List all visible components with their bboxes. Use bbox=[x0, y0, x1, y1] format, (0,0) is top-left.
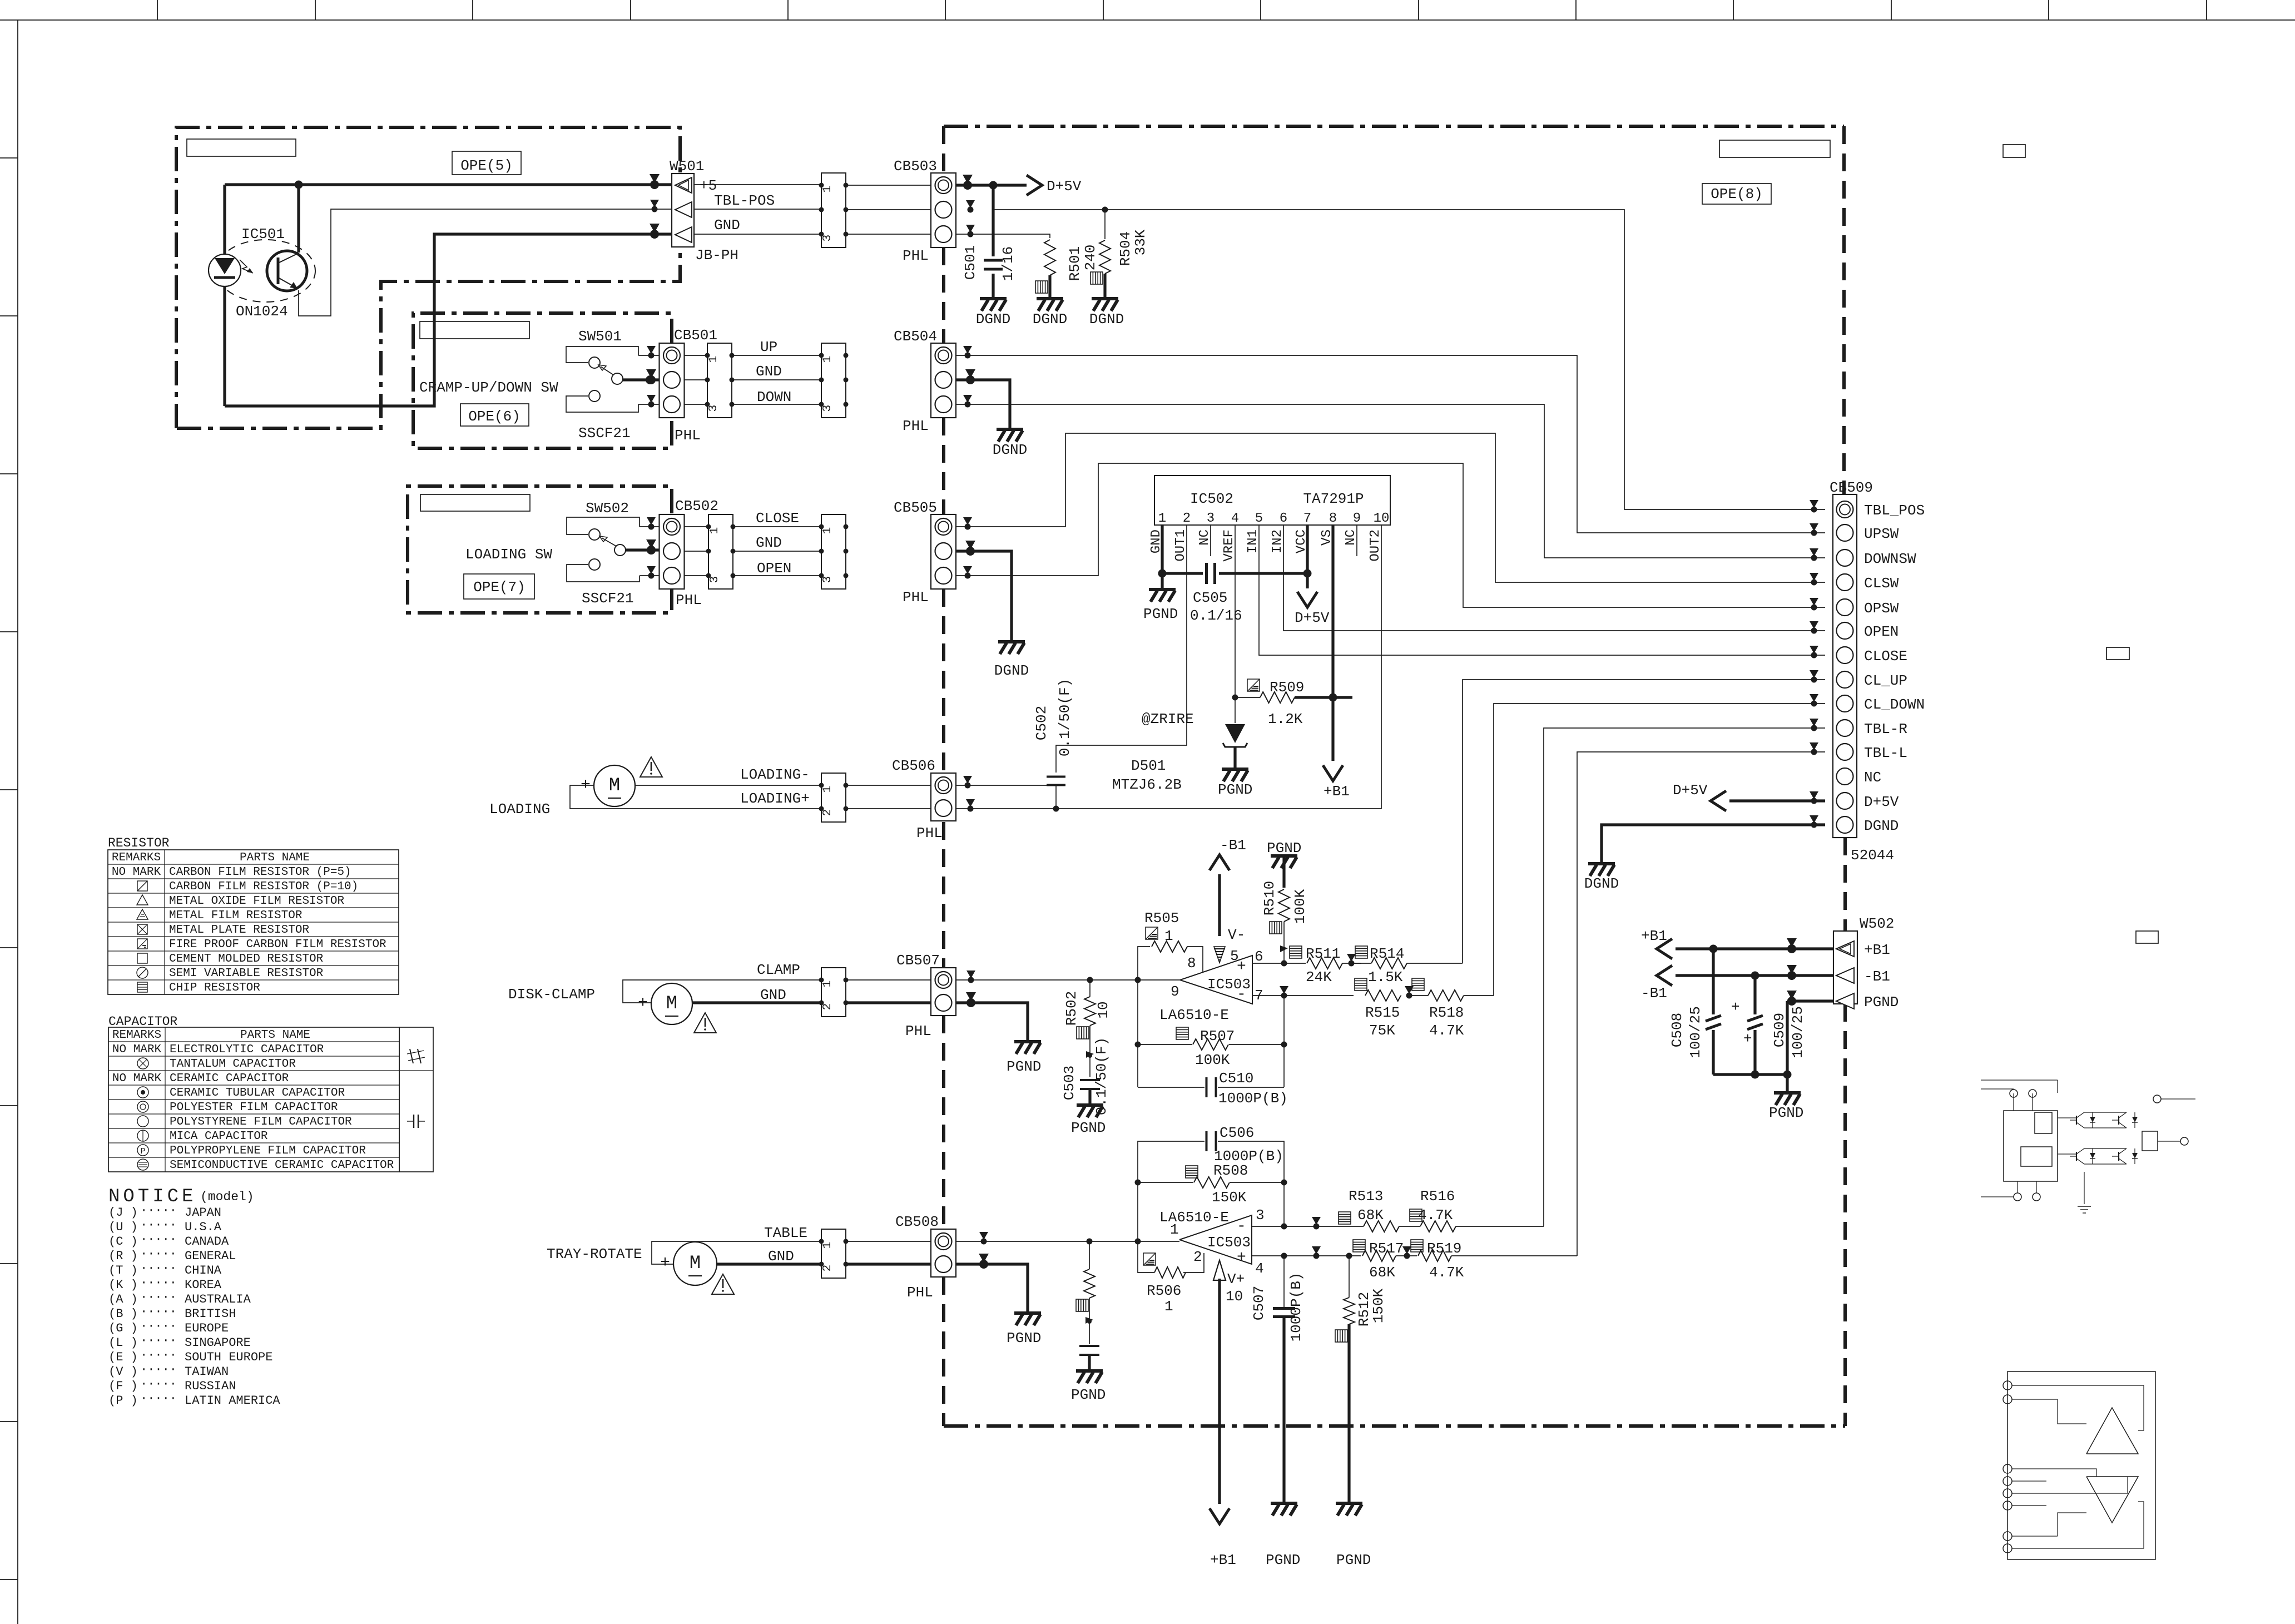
IC501 phototransistor Q bbox=[267, 251, 307, 291]
empty title box OPE(5) bbox=[187, 139, 296, 156]
svg-text:-B1: -B1 bbox=[1864, 968, 1890, 985]
svg-text:+: + bbox=[1743, 1031, 1752, 1047]
svg-text:C501: C501 bbox=[962, 245, 979, 280]
svg-text:3: 3 bbox=[1207, 511, 1215, 526]
svg-text:10: 10 bbox=[1374, 511, 1390, 526]
svg-text:TBL-POS: TBL-POS bbox=[714, 192, 775, 209]
IC502 package box bbox=[1154, 476, 1390, 525]
node D+5V branch bbox=[989, 181, 998, 190]
svg-text:SEMICONDUCTIVE CERAMIC CAPACIT: SEMICONDUCTIVE CERAMIC CAPACITOR bbox=[170, 1159, 394, 1172]
svg-text:R519: R519 bbox=[1427, 1240, 1461, 1257]
svg-text:POLYPROPYLENE FILM CAPACITOR: POLYPROPYLENE FILM CAPACITOR bbox=[170, 1145, 366, 1157]
svg-text:1: 1 bbox=[821, 1242, 834, 1249]
svg-text:NC: NC bbox=[1864, 769, 1881, 786]
node SW502 pole junction bbox=[647, 546, 656, 554]
switch SW501 upper contact bbox=[566, 346, 638, 363]
svg-text:UPSW: UPSW bbox=[1864, 526, 1899, 542]
svg-text:1: 1 bbox=[821, 786, 834, 793]
svg-text:+5: +5 bbox=[700, 177, 717, 194]
svg-text:3: 3 bbox=[821, 235, 834, 242]
warning mark loading motor bbox=[640, 757, 662, 777]
svg-text:R507: R507 bbox=[1200, 1028, 1235, 1044]
svg-text:3: 3 bbox=[708, 576, 721, 583]
svg-text:8: 8 bbox=[1329, 511, 1337, 526]
connector separation markers at CB507 bbox=[966, 971, 975, 978]
svg-text:2: 2 bbox=[1193, 1249, 1202, 1265]
connector separation marker R517-R519 bbox=[1402, 1246, 1411, 1254]
node feedback tap lower bbox=[1135, 1239, 1141, 1245]
switch SW502 lower contact bbox=[567, 565, 640, 582]
svg-text:C503: C503 bbox=[1061, 1066, 1078, 1100]
svg-text:UP: UP bbox=[760, 339, 777, 355]
svg-text:PGND: PGND bbox=[1266, 1552, 1300, 1568]
svg-text:CL_UP: CL_UP bbox=[1864, 672, 1907, 689]
svg-text:·····: ····· bbox=[140, 1247, 177, 1261]
svg-text:PGND: PGND bbox=[1143, 606, 1178, 622]
connector CB505 bbox=[931, 514, 956, 589]
svg-text:100K: 100K bbox=[1195, 1052, 1230, 1068]
OPE(6) cramp-up/down switch boundary (dash-dot) bbox=[413, 313, 672, 448]
capacitor C502 bbox=[1047, 776, 1065, 778]
svg-text:D+5V: D+5V bbox=[1864, 794, 1899, 810]
svg-text:·····: ····· bbox=[140, 1334, 177, 1348]
svg-text:JAPAN: JAPAN bbox=[185, 1206, 221, 1220]
wire SW501 upper contact to CB501 pin1 bbox=[638, 355, 660, 356]
capacitor C503 bbox=[1080, 1079, 1100, 1081]
warning mark disk-clamp motor bbox=[694, 1013, 716, 1033]
resistor R511 bbox=[1307, 958, 1342, 969]
svg-text:PHL: PHL bbox=[903, 589, 929, 606]
resistor R508 feedback bbox=[1135, 1180, 1141, 1186]
harness junction box CB507 bbox=[821, 968, 846, 1017]
svg-text:OPE(6): OPE(6) bbox=[468, 408, 521, 425]
wire DGND out of CB509 bbox=[1602, 825, 1825, 862]
svg-text:LOADING-: LOADING- bbox=[740, 766, 810, 783]
wire LOADING- from CB506 pin1 bbox=[956, 785, 1056, 786]
svg-text:9: 9 bbox=[1353, 511, 1361, 526]
svg-text:PHL: PHL bbox=[907, 1284, 933, 1301]
svg-text:CARBON FILM RESISTOR (P=5): CARBON FILM RESISTOR (P=5) bbox=[169, 866, 351, 879]
svg-text:D501: D501 bbox=[1131, 757, 1166, 774]
svg-text:+B1: +B1 bbox=[1864, 942, 1890, 958]
resistor R514 bbox=[1351, 963, 1371, 964]
svg-text:C509: C509 bbox=[1771, 1013, 1788, 1047]
resistor R501 bbox=[1044, 240, 1055, 275]
switch SW501 lower contact bbox=[566, 396, 638, 412]
svg-text:IN1: IN1 bbox=[1246, 529, 1261, 553]
svg-text:PHL: PHL bbox=[916, 825, 943, 841]
svg-text:6: 6 bbox=[1255, 948, 1263, 965]
svg-text:100/25: 100/25 bbox=[1790, 1006, 1806, 1058]
svg-text:PGND: PGND bbox=[1071, 1387, 1106, 1403]
svg-text:1: 1 bbox=[821, 186, 834, 193]
svg-text:(J ): (J ) bbox=[108, 1206, 138, 1220]
svg-text:PGND: PGND bbox=[1336, 1552, 1371, 1568]
resistor R510 chain from PGND bbox=[1271, 856, 1297, 868]
svg-text:VREF: VREF bbox=[1222, 529, 1237, 562]
svg-text:V+: V+ bbox=[1227, 1271, 1245, 1288]
svg-text:CEMENT MOLDED RESISTOR: CEMENT MOLDED RESISTOR bbox=[169, 953, 324, 966]
zener diode D501 MTZJ6.2B bbox=[1235, 697, 1236, 723]
svg-text:4.7K: 4.7K bbox=[1429, 1022, 1464, 1039]
connector CB506 bbox=[931, 773, 956, 821]
svg-text:R504: R504 bbox=[1117, 231, 1134, 266]
svg-text:PGND: PGND bbox=[1007, 1330, 1041, 1346]
svg-text:CHINA: CHINA bbox=[185, 1264, 222, 1278]
thumbnail driver IC block diagram bbox=[2007, 1372, 2155, 1559]
wire CB504 GND to DGND bbox=[956, 380, 1010, 428]
wire SW502 lower contact to CB502 pin3 bbox=[640, 575, 660, 576]
wire TBL-POS long run to CB509 bbox=[994, 210, 1825, 509]
svg-text:TBL-L: TBL-L bbox=[1864, 745, 1907, 761]
svg-text:1.2K: 1.2K bbox=[1268, 711, 1303, 727]
svg-text:·····: ····· bbox=[140, 1363, 177, 1377]
wire C501 vertical drop bbox=[992, 185, 994, 256]
harness junction box B CB501-CB504 bbox=[821, 343, 846, 418]
svg-text:8: 8 bbox=[1187, 955, 1196, 972]
svg-text:1: 1 bbox=[1170, 1221, 1179, 1238]
svg-text:METAL PLATE RESISTOR: METAL PLATE RESISTOR bbox=[169, 924, 309, 937]
svg-text:CERAMIC CAPACITOR: CERAMIC CAPACITOR bbox=[170, 1072, 289, 1085]
capacitor C508 electrolytic bbox=[1712, 949, 1714, 1014]
ground PGND under CB507 bbox=[1014, 1042, 1041, 1054]
svg-text:REMARKS: REMARKS bbox=[112, 1029, 161, 1042]
svg-text:PARTS NAME: PARTS NAME bbox=[240, 851, 310, 864]
svg-text:TRAY-ROTATE: TRAY-ROTATE bbox=[547, 1246, 642, 1262]
svg-text:M: M bbox=[666, 993, 677, 1014]
svg-text:C505: C505 bbox=[1193, 590, 1227, 606]
wire DOWN from CB504 to CB509 DOWNSW bbox=[956, 404, 1825, 558]
motor TRAY-ROTATE bracket wires bbox=[652, 1241, 821, 1264]
svg-text:NO MARK: NO MARK bbox=[112, 866, 161, 879]
svg-text:·····: ····· bbox=[140, 1392, 177, 1405]
ground DGND under CB504 bbox=[997, 429, 1023, 442]
connector separation marker R515-R518 bbox=[1405, 986, 1414, 994]
IC502 pin9 NC stub bbox=[1356, 525, 1357, 556]
capacitor C510 bbox=[1138, 1087, 1204, 1088]
wire CB505 GND to DGND bbox=[956, 551, 1012, 641]
svg-text:PGND: PGND bbox=[1864, 994, 1899, 1011]
V+ supply arrow into pin10 bbox=[1213, 1260, 1226, 1280]
wire GND to C505 bbox=[1162, 572, 1203, 575]
svg-text:4: 4 bbox=[1255, 1260, 1264, 1277]
svg-text:CB502: CB502 bbox=[675, 498, 718, 514]
svg-text:·····: ····· bbox=[140, 1232, 177, 1246]
wire W501 to junction box row TBL-POS bbox=[694, 209, 821, 210]
connector CB508 bbox=[931, 1229, 956, 1277]
svg-text:3: 3 bbox=[821, 405, 834, 412]
svg-text:4: 4 bbox=[1231, 511, 1239, 526]
wire IC501 collector to +5 bbox=[297, 185, 300, 252]
node R504 tap on TBL-POS wire bbox=[1102, 207, 1108, 213]
wire -B1 into W502 bbox=[1676, 974, 1833, 977]
svg-text:2: 2 bbox=[821, 1003, 834, 1011]
svg-text:SW501: SW501 bbox=[578, 328, 622, 345]
wire C505 to VCC pin7 bbox=[1219, 572, 1307, 575]
svg-text:0.1/16: 0.1/16 bbox=[1190, 607, 1242, 624]
svg-text:C508: C508 bbox=[1669, 1013, 1686, 1047]
connector separation markers at W502 bbox=[1787, 938, 1797, 947]
svg-text:CARBON FILM RESISTOR (P=10): CARBON FILM RESISTOR (P=10) bbox=[169, 880, 358, 893]
svg-text:PHL: PHL bbox=[903, 247, 929, 264]
wires junction box to CB507 bbox=[846, 979, 931, 981]
OPE(8) boundary bottom edge bbox=[944, 1424, 1845, 1428]
svg-text:1: 1 bbox=[708, 527, 721, 534]
capacitor C506 feedback bbox=[1138, 1141, 1204, 1182]
svg-text:·····: ····· bbox=[140, 1261, 177, 1275]
connector W502 bbox=[1833, 931, 1857, 1004]
svg-text:DOWNSW: DOWNSW bbox=[1864, 551, 1916, 567]
ground PGND under C504 bbox=[1076, 1371, 1103, 1383]
svg-text:DGND: DGND bbox=[994, 662, 1029, 679]
svg-text:CAPACITOR: CAPACITOR bbox=[108, 1014, 177, 1029]
svg-text:6: 6 bbox=[1280, 511, 1287, 526]
svg-text:LATIN AMERICA: LATIN AMERICA bbox=[185, 1394, 280, 1408]
IC502 pin4 VREF lead bbox=[1235, 525, 1236, 697]
connector separation markers at CB504 bbox=[963, 346, 972, 354]
connector separation markers at CB506 bbox=[963, 776, 972, 784]
small reference box right edge lower bbox=[2136, 931, 2158, 943]
svg-text:CB503: CB503 bbox=[894, 158, 937, 175]
motor LOADING bracket wires bbox=[570, 785, 821, 809]
svg-text:R515: R515 bbox=[1365, 1004, 1400, 1021]
svg-text:7: 7 bbox=[1255, 987, 1263, 1004]
svg-text:3: 3 bbox=[1256, 1207, 1265, 1224]
svg-text:TANTALUM CAPACITOR: TANTALUM CAPACITOR bbox=[170, 1058, 296, 1071]
op-amp IC503 upper half bbox=[1180, 955, 1252, 1004]
connector CB507 bbox=[931, 968, 956, 1016]
svg-text:SINGAPORE: SINGAPORE bbox=[185, 1336, 251, 1350]
wire pin4 + input bbox=[1252, 1255, 1284, 1256]
small reference box right edge top bbox=[2003, 145, 2025, 157]
svg-text:TAIWAN: TAIWAN bbox=[185, 1365, 229, 1379]
wire CB507 GND to PGND bbox=[956, 1003, 1028, 1040]
capacitor C509 electrolytic bbox=[1753, 976, 1756, 1014]
connector CB504 bbox=[931, 343, 956, 418]
label box OPE(7) bbox=[464, 574, 534, 599]
svg-text:DGND: DGND bbox=[993, 442, 1027, 458]
svg-text:68K: 68K bbox=[1369, 1264, 1395, 1281]
svg-text:TBL_POS: TBL_POS bbox=[1864, 502, 1925, 519]
svg-text:OPE(7): OPE(7) bbox=[473, 579, 526, 596]
wire CL_UP to CB509 bbox=[1463, 680, 1825, 963]
node C502 to LOADING+ bbox=[1053, 806, 1059, 812]
connector W501 JB-PH bbox=[672, 174, 694, 247]
ground PGND under C507 bbox=[1271, 1503, 1297, 1516]
resistor R518 bbox=[1409, 995, 1428, 996]
svg-text:IC501: IC501 bbox=[241, 226, 285, 242]
svg-text:LOADING: LOADING bbox=[489, 801, 550, 818]
OPE(7) loading switch boundary (dash-dot) bbox=[408, 486, 672, 613]
OPE(8) boundary right edge below W502 bbox=[1843, 1004, 1847, 1426]
IC501 LED bbox=[209, 254, 241, 286]
svg-text:CHIP RESISTOR: CHIP RESISTOR bbox=[169, 982, 260, 994]
empty title box OPE(6) bbox=[420, 321, 529, 339]
svg-text:-B1: -B1 bbox=[1641, 985, 1667, 1002]
wire pin7 - output bbox=[1252, 995, 1284, 996]
svg-text:R509: R509 bbox=[1270, 679, 1304, 696]
wire SW502 upper contact to CB502 pin1 bbox=[640, 526, 660, 527]
svg-text:V-: V- bbox=[1228, 927, 1245, 943]
svg-text:GENERAL: GENERAL bbox=[185, 1249, 236, 1263]
svg-text:GND: GND bbox=[714, 217, 740, 234]
node IC502 GND junction bbox=[1158, 570, 1167, 578]
wire +B1 into W502 bbox=[1676, 947, 1833, 950]
ground DGND under CB505 bbox=[998, 642, 1025, 654]
resistor R504 bbox=[1099, 240, 1111, 274]
ground DGND under R501 bbox=[1037, 299, 1063, 311]
connector CB509 bbox=[1833, 494, 1857, 838]
wires junction box to CB506 bbox=[846, 785, 931, 786]
svg-text:D+5V: D+5V bbox=[1047, 178, 1082, 195]
ground DGND from CB509 bbox=[1588, 864, 1615, 876]
svg-text:10: 10 bbox=[1226, 1288, 1243, 1305]
capacitor C501 bbox=[984, 259, 1003, 262]
svg-text:C506: C506 bbox=[1220, 1125, 1254, 1141]
svg-text:68K: 68K bbox=[1357, 1207, 1384, 1224]
motor DISK-CLAMP bracket wires bbox=[623, 980, 821, 1003]
svg-text:(U ): (U ) bbox=[108, 1220, 138, 1234]
wire +5 supply inside OPE(5) bbox=[225, 183, 672, 186]
ground PGND under R512 bbox=[1336, 1503, 1362, 1516]
fire-proof mark R509 bbox=[1247, 679, 1260, 691]
svg-text:RUSSIAN: RUSSIAN bbox=[185, 1379, 236, 1393]
svg-text:R505: R505 bbox=[1144, 910, 1179, 927]
node R503 tap bbox=[1087, 1239, 1093, 1245]
svg-text:(L ): (L ) bbox=[108, 1336, 138, 1350]
svg-text:EUROPE: EUROPE bbox=[185, 1321, 229, 1335]
wire R504 to ground bbox=[1103, 274, 1106, 298]
frame tick marks top edge bbox=[157, 0, 158, 20]
svg-text:C502: C502 bbox=[1033, 706, 1050, 740]
svg-text:·····: ····· bbox=[140, 1276, 177, 1290]
ground PGND under W502 bbox=[1774, 1093, 1801, 1105]
svg-text:33K: 33K bbox=[1132, 229, 1149, 255]
svg-text:PGND: PGND bbox=[1218, 781, 1252, 798]
node R510/pin6 bbox=[1281, 960, 1287, 967]
svg-text:(E ): (E ) bbox=[108, 1350, 138, 1364]
svg-text:(T ): (T ) bbox=[108, 1264, 138, 1278]
IC501 light arrow bbox=[240, 260, 253, 273]
resistor R509 bbox=[1235, 697, 1260, 698]
svg-text:10: 10 bbox=[1095, 1001, 1112, 1018]
capacitor C505 bbox=[1205, 563, 1208, 584]
wire D+5V out of CB509 bbox=[1729, 799, 1825, 802]
resistor R515 bbox=[1365, 990, 1401, 1001]
resistor R519 bbox=[1396, 1255, 1417, 1256]
warning mark tray motor bbox=[712, 1274, 734, 1294]
connector separation markers at CB503 bbox=[963, 175, 973, 184]
resistor R503 bbox=[1089, 1241, 1090, 1269]
legend film capacitor symbol sample bbox=[413, 1115, 414, 1128]
svg-text:+B1: +B1 bbox=[1210, 1552, 1236, 1568]
wire D+5V from CB503 pin1 bbox=[956, 184, 1027, 186]
wire CB508 pin1 to IC503 pin1 input bbox=[956, 1241, 1179, 1242]
connector separation markers at CB509 bbox=[1810, 500, 1818, 508]
arrow D+5V into VCC bbox=[1306, 573, 1308, 588]
svg-text:(V ): (V ) bbox=[108, 1365, 138, 1379]
svg-text:PGND: PGND bbox=[1007, 1058, 1041, 1075]
svg-text:·····: ····· bbox=[140, 1290, 177, 1304]
svg-text:·····: ····· bbox=[140, 1305, 177, 1319]
svg-text:3: 3 bbox=[821, 576, 834, 583]
connector separation marker pin4 bbox=[1312, 1246, 1321, 1254]
svg-text:4.7K: 4.7K bbox=[1429, 1264, 1464, 1281]
svg-text:DGND: DGND bbox=[976, 311, 1010, 328]
svg-text:KOREA: KOREA bbox=[185, 1278, 222, 1292]
svg-text:·····: ····· bbox=[140, 1319, 177, 1333]
empty title box OPE(7) bbox=[420, 494, 530, 511]
svg-text:PHL: PHL bbox=[905, 1023, 931, 1039]
ground PGND under IC502 pin1 bbox=[1161, 573, 1163, 588]
svg-text:GND: GND bbox=[760, 987, 786, 1003]
svg-text:LA6510-E: LA6510-E bbox=[1159, 1007, 1229, 1023]
svg-text:·····: ····· bbox=[140, 1348, 177, 1362]
arrow D+5V out bbox=[1027, 175, 1042, 195]
svg-text:W501: W501 bbox=[670, 158, 704, 175]
feedback network R507/C510 bbox=[1137, 980, 1138, 1087]
svg-text:-B1: -B1 bbox=[1220, 837, 1246, 854]
small reference box right edge middle bbox=[2106, 647, 2129, 660]
svg-text:U.S.A: U.S.A bbox=[185, 1220, 222, 1234]
svg-text:MICA CAPACITOR: MICA CAPACITOR bbox=[170, 1130, 268, 1143]
svg-text:R514: R514 bbox=[1370, 945, 1404, 962]
wire pin6 + input bbox=[1252, 963, 1306, 964]
svg-text:CB501: CB501 bbox=[674, 327, 717, 344]
OPE(8) boundary right edge upper segment bbox=[1842, 126, 1846, 494]
svg-text:+: + bbox=[581, 776, 591, 795]
wire PGND bus under capacitors bbox=[1713, 1073, 1787, 1076]
svg-text:GND: GND bbox=[756, 534, 782, 551]
ground PGND under C503 bbox=[1077, 1105, 1103, 1117]
svg-text:(K ): (K ) bbox=[108, 1278, 138, 1292]
svg-text:(A ): (A ) bbox=[108, 1293, 138, 1306]
ground PGND under CB508 bbox=[1014, 1313, 1041, 1325]
switch SW502 pole and arm bbox=[614, 544, 626, 556]
svg-text:IC503: IC503 bbox=[1207, 1234, 1251, 1251]
svg-text:NC: NC bbox=[1197, 529, 1212, 546]
svg-text:7: 7 bbox=[1303, 511, 1311, 526]
svg-text:OUT1: OUT1 bbox=[1173, 529, 1188, 562]
wire TBL-R to CB509 bbox=[1544, 728, 1825, 1226]
wire CL_DOWN to CB509 bbox=[1494, 704, 1825, 996]
svg-text:TBL-R: TBL-R bbox=[1864, 721, 1907, 737]
switch SW501 pole and arm bbox=[612, 373, 623, 384]
wire CB503 pin3 to R501 bbox=[956, 234, 1050, 238]
svg-text:R517: R517 bbox=[1369, 1240, 1404, 1257]
svg-text:VS: VS bbox=[1320, 529, 1335, 546]
resistor R513 bbox=[1364, 1221, 1399, 1232]
svg-text:CB507: CB507 bbox=[896, 952, 940, 969]
svg-text:ON1024: ON1024 bbox=[236, 303, 288, 320]
thumbnail motor-driver block diagram bbox=[2004, 1111, 2058, 1181]
legend electrolytic capacitor symbol sample bbox=[410, 1049, 413, 1063]
resistor R502 bbox=[1089, 980, 1091, 997]
svg-text:·····: ····· bbox=[140, 1204, 177, 1217]
svg-text:IC502: IC502 bbox=[1190, 491, 1233, 507]
svg-text:GND: GND bbox=[756, 363, 782, 380]
OPE(8) boundary right edge between CB509 and W502 bbox=[1843, 838, 1847, 931]
wire W501 to junction box row GND bbox=[694, 234, 821, 235]
connector separation markers at CB501 bbox=[647, 346, 656, 354]
svg-text:MTZJ6.2B: MTZJ6.2B bbox=[1112, 776, 1182, 793]
IC502 pin1 GND lead bbox=[1161, 525, 1163, 573]
svg-text:M: M bbox=[690, 1253, 701, 1274]
polarity mark C504 bbox=[1089, 1298, 1090, 1344]
chip mark R501 bbox=[1035, 281, 1048, 293]
wire W501 to junction box row +5 bbox=[694, 184, 821, 185]
IC502 pin2 OUT1 lead bbox=[1056, 525, 1187, 773]
